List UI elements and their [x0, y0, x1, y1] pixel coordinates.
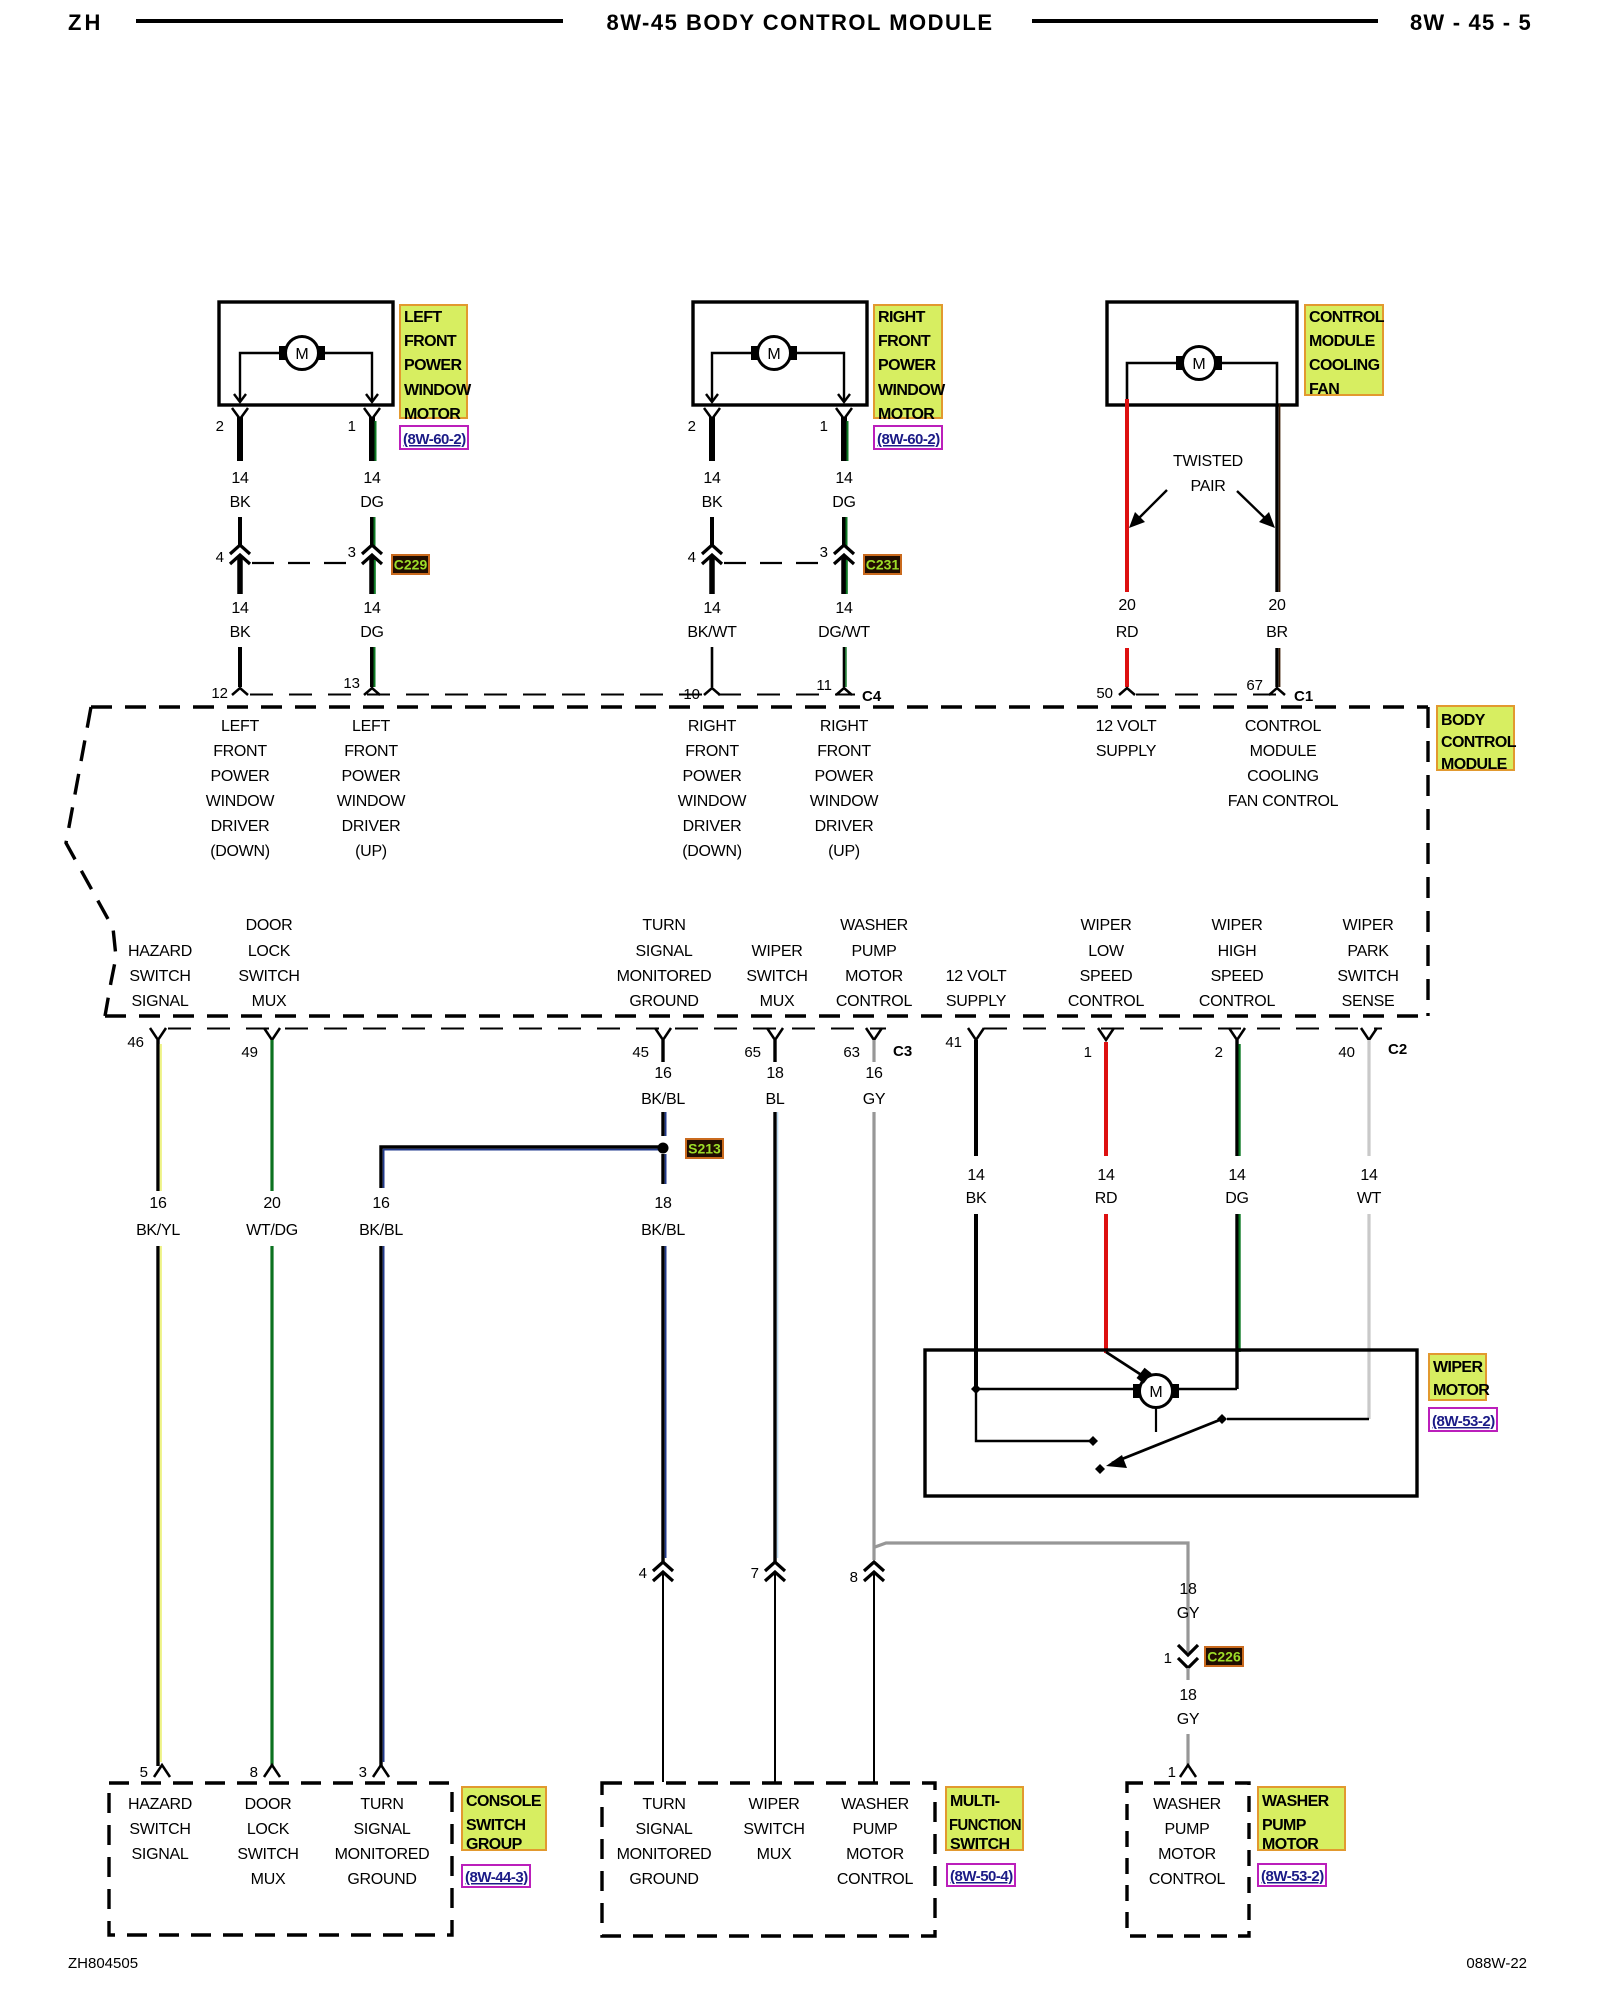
svg-text:MODULE: MODULE	[1250, 743, 1317, 760]
connector MFS pin 4	[653, 1562, 673, 1571]
svg-text:20: 20	[263, 1195, 281, 1212]
svg-text:GROUP: GROUP	[466, 1836, 523, 1853]
link chip 8W-50-4	[947, 1864, 1015, 1886]
svg-text:7: 7	[751, 1565, 759, 1582]
wire BK to motor left terminal	[976, 1388, 1133, 1390]
svg-text:BL: BL	[766, 1091, 785, 1108]
svg-text:POWER: POWER	[211, 768, 270, 785]
svg-text:SIGNAL: SIGNAL	[132, 993, 189, 1010]
svg-text:RD: RD	[1095, 1190, 1118, 1207]
C231 harness dashed link	[724, 562, 832, 564]
svg-text:4: 4	[639, 1565, 647, 1582]
svg-text:14: 14	[967, 1167, 985, 1184]
svg-text:TURN: TURN	[360, 1796, 403, 1813]
svg-text:TURN: TURN	[642, 1796, 685, 1813]
arrow U2 left leg down	[706, 394, 718, 402]
svg-text:PAIR: PAIR	[1191, 478, 1226, 495]
svg-text:MOTOR: MOTOR	[845, 968, 903, 985]
svg-text:18: 18	[654, 1195, 672, 1212]
svg-text:WASHER: WASHER	[1262, 1793, 1330, 1810]
svg-text:GY: GY	[863, 1091, 886, 1108]
console pin 8 Y	[264, 1765, 280, 1777]
svg-text:14: 14	[703, 470, 721, 487]
motor U2: right front power window motor box	[693, 302, 867, 405]
svg-text:SWITCH: SWITCH	[743, 1821, 804, 1838]
svg-text:C3: C3	[893, 1043, 912, 1060]
BCM pin 50 Y	[1119, 688, 1135, 695]
svg-text:WIPER: WIPER	[1433, 1359, 1483, 1376]
motor U3 circle M	[1183, 347, 1216, 380]
svg-text:WIPER: WIPER	[1212, 917, 1263, 934]
svg-text:WIPER: WIPER	[752, 943, 803, 960]
motor U3: control module cooling fan box	[1107, 302, 1297, 405]
svg-text:14: 14	[1097, 1167, 1115, 1184]
svg-text:SIGNAL: SIGNAL	[636, 943, 693, 960]
twisted pair arrow left	[1136, 490, 1167, 521]
svg-text:DG/WT: DG/WT	[818, 624, 870, 641]
svg-text:FRONT: FRONT	[213, 743, 267, 760]
svg-text:WT/DG: WT/DG	[246, 1222, 298, 1239]
svg-text:POWER: POWER	[683, 768, 742, 785]
svg-text:088W-22: 088W-22	[1466, 1955, 1527, 1972]
svg-text:14: 14	[363, 600, 381, 617]
wiper motor M circle	[1140, 1375, 1173, 1408]
connector C229 pin 4	[230, 545, 250, 554]
wiper motor top-left terminal	[1137, 1368, 1152, 1384]
BCM pin 65 Y	[767, 1028, 783, 1040]
svg-text:ZH: ZH	[68, 10, 103, 35]
svg-text:MUX: MUX	[757, 1846, 792, 1863]
link chip 8W-60-2 left	[400, 426, 468, 449]
svg-text:(8W-53-2): (8W-53-2)	[1261, 1868, 1324, 1885]
svg-text:WIPER: WIPER	[1081, 917, 1132, 934]
BCM bottom connector dashed link C2	[984, 1028, 1382, 1030]
svg-text:FAN: FAN	[1309, 381, 1339, 398]
svg-text:BODY: BODY	[1441, 712, 1486, 729]
multi-function switch dashed box	[602, 1783, 935, 1936]
park switch lever tip diamond	[1095, 1464, 1105, 1474]
pin 1 connector Y below U2	[836, 408, 852, 419]
svg-text:BK/BL: BK/BL	[641, 1222, 685, 1239]
BCM pin 63 Y	[866, 1028, 882, 1040]
svg-text:GROUND: GROUND	[629, 993, 698, 1010]
svg-text:SWITCH: SWITCH	[237, 1846, 298, 1863]
svg-text:40: 40	[1338, 1044, 1355, 1061]
svg-text:WINDOW: WINDOW	[878, 382, 946, 399]
svg-text:(DOWN): (DOWN)	[682, 843, 742, 860]
svg-text:45: 45	[632, 1044, 649, 1061]
svg-text:5: 5	[140, 1764, 148, 1781]
svg-text:MONITORED: MONITORED	[335, 1846, 430, 1863]
motor U2 circle M	[758, 337, 791, 370]
svg-text:16: 16	[654, 1065, 672, 1082]
label chip CONTROL MODULE COOLING FAN	[1305, 305, 1383, 395]
label chip LEFT FRONT POWER WINDOW MOTOR	[400, 305, 467, 418]
motor U2 right terminal	[789, 346, 797, 360]
wire U1 right leg	[325, 353, 372, 401]
connector C229 pin 3	[362, 545, 382, 554]
washer pump pin 1 Y	[1180, 1765, 1196, 1777]
svg-text:HAZARD: HAZARD	[128, 1796, 192, 1813]
svg-text:WINDOW: WINDOW	[810, 793, 880, 810]
wire 14 RD pin1	[1104, 1042, 1108, 1156]
svg-text:S213: S213	[688, 1141, 721, 1157]
svg-text:18: 18	[1179, 1687, 1197, 1704]
svg-text:16: 16	[865, 1065, 883, 1082]
C226 label chip	[1205, 1647, 1243, 1666]
svg-text:BK/WT: BK/WT	[687, 624, 737, 641]
WIPER MOTOR chip	[1429, 1354, 1486, 1400]
C229 label chip	[392, 555, 429, 574]
C229 harness dashed link	[252, 562, 360, 564]
svg-text:20: 20	[1268, 597, 1286, 614]
svg-text:MOTOR: MOTOR	[1433, 1382, 1490, 1399]
svg-text:(8W-53-2): (8W-53-2)	[1432, 1413, 1495, 1430]
svg-text:SWITCH: SWITCH	[466, 1817, 526, 1834]
svg-text:MOTOR: MOTOR	[1262, 1836, 1319, 1853]
wire U3 left leg	[1127, 363, 1176, 399]
svg-text:65: 65	[744, 1044, 761, 1061]
svg-text:FRONT: FRONT	[344, 743, 398, 760]
C231 label chip	[864, 555, 901, 574]
svg-text:GROUND: GROUND	[629, 1871, 698, 1888]
svg-text:WINDOW: WINDOW	[678, 793, 748, 810]
BCM pin 46 Y	[150, 1028, 166, 1040]
BCM top connector dashed link left	[250, 694, 855, 696]
svg-text:MONITORED: MONITORED	[617, 1846, 712, 1863]
splice S213 horizontal wire	[381, 1147, 660, 1188]
arrow U1 right leg down	[366, 394, 378, 402]
CONSOLE SWITCH GROUP chip	[462, 1787, 546, 1850]
BCM pin 11 Y	[836, 688, 852, 695]
link chip 8W-60-2 right	[874, 426, 942, 449]
wire 20 RD from U3	[1125, 404, 1129, 592]
svg-text:DG: DG	[1225, 1190, 1248, 1207]
svg-text:M: M	[295, 346, 308, 363]
BCM pin 2 Y	[1229, 1028, 1245, 1040]
svg-text:M: M	[767, 346, 780, 363]
svg-text:DOOR: DOOR	[246, 917, 293, 934]
svg-text:DRIVER: DRIVER	[683, 818, 742, 835]
BCM pin 40 Y	[1361, 1028, 1377, 1040]
svg-text:CONTROL: CONTROL	[1199, 993, 1276, 1010]
svg-text:BK/YL: BK/YL	[136, 1222, 180, 1239]
svg-text:1: 1	[1084, 1044, 1092, 1061]
link chip 8W-44-3	[462, 1865, 530, 1887]
svg-text:SIGNAL: SIGNAL	[132, 1846, 189, 1863]
svg-text:HIGH: HIGH	[1218, 943, 1257, 960]
svg-text:PUMP: PUMP	[1164, 1821, 1209, 1838]
svg-text:PUMP: PUMP	[852, 1821, 897, 1838]
park contact diamond left	[1088, 1436, 1098, 1446]
svg-text:C231: C231	[866, 557, 900, 573]
svg-text:BR: BR	[1266, 624, 1288, 641]
motor U3 right terminal	[1214, 356, 1222, 370]
svg-text:C226: C226	[1207, 1649, 1241, 1665]
svg-text:WASHER: WASHER	[1153, 1796, 1221, 1813]
svg-text:67: 67	[1246, 677, 1263, 694]
svg-text:DRIVER: DRIVER	[342, 818, 401, 835]
svg-text:BK: BK	[230, 494, 251, 511]
BODY CONTROL MODULE chip	[1437, 706, 1514, 770]
pin 2 connector Y below U1	[232, 408, 248, 419]
wire 16 GY pin63	[872, 1040, 875, 1062]
svg-text:POWER: POWER	[404, 357, 462, 374]
svg-text:14: 14	[231, 600, 249, 617]
svg-text:MOTOR: MOTOR	[846, 1846, 904, 1863]
wire 20 BR from U3	[1275, 404, 1278, 592]
BCM pin 13 Y	[364, 688, 380, 695]
svg-text:16: 16	[149, 1195, 167, 1212]
wire WT to park switch pivot	[1227, 1418, 1369, 1420]
wiper motor box	[925, 1350, 1417, 1496]
wire 18 BL pin65	[773, 1040, 776, 1062]
svg-text:LOCK: LOCK	[248, 943, 291, 960]
svg-text:8W-45 BODY CONTROL MODULE: 8W-45 BODY CONTROL MODULE	[606, 10, 993, 35]
svg-text:CONTROL: CONTROL	[1441, 734, 1517, 751]
motor U1 right terminal	[317, 346, 325, 360]
svg-text:CONTROL: CONTROL	[1068, 993, 1145, 1010]
svg-text:8: 8	[850, 1569, 858, 1586]
svg-text:COOLING: COOLING	[1309, 357, 1380, 374]
BCM dashed box bottom edge	[105, 1014, 1428, 1017]
wire 16 BK/YL pin46 upper	[156, 1040, 159, 1191]
svg-text:LOCK: LOCK	[247, 1821, 290, 1838]
wire 14 DG from U2 pin1	[841, 417, 847, 461]
motor U1: left front power window motor box	[219, 302, 393, 405]
svg-text:41: 41	[945, 1034, 962, 1051]
svg-text:2: 2	[688, 418, 696, 435]
svg-text:4: 4	[688, 549, 696, 566]
svg-text:C229: C229	[394, 557, 428, 573]
svg-text:BK: BK	[230, 624, 251, 641]
wire 14 BK from U1 pin2	[237, 417, 243, 461]
svg-text:LEFT: LEFT	[352, 718, 390, 735]
svg-text:14: 14	[363, 470, 381, 487]
svg-text:MONITORED: MONITORED	[617, 968, 712, 985]
wire 16 BK/YL pin46 lower	[156, 1246, 159, 1766]
svg-text:1: 1	[820, 418, 828, 435]
wire U2 right leg	[797, 353, 844, 401]
svg-text:WINDOW: WINDOW	[404, 382, 472, 399]
svg-text:M: M	[1149, 1384, 1162, 1401]
svg-text:WASHER: WASHER	[840, 917, 908, 934]
wire U3 right leg	[1222, 363, 1277, 405]
svg-text:14: 14	[231, 470, 249, 487]
wire BK junction node	[971, 1384, 981, 1394]
svg-text:CONTROL: CONTROL	[836, 993, 913, 1010]
header rule left	[136, 19, 563, 23]
splice S213 node	[658, 1143, 669, 1154]
header rule right	[1032, 19, 1378, 23]
svg-text:FRONT: FRONT	[878, 333, 931, 350]
svg-text:GROUND: GROUND	[347, 1871, 416, 1888]
svg-text:DRIVER: DRIVER	[815, 818, 874, 835]
console pin 3 Y	[373, 1765, 389, 1777]
svg-text:20: 20	[1118, 597, 1136, 614]
svg-text:RD: RD	[1116, 624, 1139, 641]
svg-text:(UP): (UP)	[355, 843, 387, 860]
svg-text:WT: WT	[1357, 1190, 1382, 1207]
svg-text:14: 14	[1360, 1167, 1378, 1184]
svg-text:SWITCH: SWITCH	[129, 968, 190, 985]
svg-text:MODULE: MODULE	[1441, 756, 1508, 773]
wire U1 left leg	[240, 353, 279, 401]
wire 20 WT/DG pin49 lower	[270, 1246, 273, 1766]
svg-text:WINDOW: WINDOW	[206, 793, 276, 810]
wire DG to motor right terminal	[1179, 1388, 1237, 1390]
svg-text:RIGHT: RIGHT	[688, 718, 737, 735]
svg-text:2: 2	[1215, 1044, 1223, 1061]
wiper motor right terminal	[1171, 1384, 1179, 1398]
svg-text:BK: BK	[966, 1190, 987, 1207]
motor U3 left terminal	[1176, 356, 1184, 370]
svg-text:DG: DG	[360, 494, 383, 511]
MULTI-FUNCTION SWITCH chip	[946, 1787, 1023, 1850]
svg-text:POWER: POWER	[342, 768, 401, 785]
svg-text:SWITCH: SWITCH	[238, 968, 299, 985]
svg-text:CONTROL: CONTROL	[1245, 718, 1322, 735]
svg-text:WIPER: WIPER	[749, 1796, 800, 1813]
wire 14 BK pin41	[974, 1040, 978, 1156]
svg-text:C4: C4	[862, 688, 882, 705]
svg-text:GY: GY	[1177, 1711, 1200, 1728]
svg-text:16: 16	[372, 1195, 390, 1212]
connector MFS pin 8	[864, 1562, 884, 1571]
svg-text:1: 1	[1168, 1764, 1176, 1781]
svg-text:1: 1	[1164, 1650, 1172, 1667]
BCM pin 49 Y	[264, 1028, 280, 1040]
svg-text:8: 8	[250, 1764, 258, 1781]
svg-text:MOTOR: MOTOR	[878, 406, 935, 423]
BCM pin 1 Y	[1098, 1028, 1114, 1040]
svg-text:DOOR: DOOR	[245, 1796, 292, 1813]
svg-text:HAZARD: HAZARD	[128, 943, 192, 960]
svg-text:FRONT: FRONT	[685, 743, 739, 760]
BCM pin 12 Y	[232, 688, 248, 695]
svg-text:DG: DG	[832, 494, 855, 511]
svg-text:MOTOR: MOTOR	[1158, 1846, 1216, 1863]
park switch lever	[1112, 1419, 1222, 1463]
svg-text:LOW: LOW	[1088, 943, 1125, 960]
svg-text:SPEED: SPEED	[1080, 968, 1133, 985]
label chip RIGHT FRONT POWER WINDOW MOTOR	[874, 305, 942, 418]
svg-text:POWER: POWER	[815, 768, 874, 785]
svg-text:(8W-44-3): (8W-44-3)	[465, 1869, 528, 1886]
svg-text:SIGNAL: SIGNAL	[354, 1821, 411, 1838]
BCM dashed box jagged left edge	[66, 707, 116, 1016]
svg-text:50: 50	[1096, 685, 1113, 702]
svg-text:12 VOLT: 12 VOLT	[1096, 718, 1157, 735]
svg-text:63: 63	[843, 1044, 860, 1061]
svg-text:SUPPLY: SUPPLY	[946, 993, 1007, 1010]
link chip 8W-53-2 wiper	[1429, 1408, 1497, 1431]
wire 18 GY branch to washer pump	[875, 1543, 1188, 1628]
BCM pin 45 Y	[655, 1028, 671, 1040]
BCM bottom connector dashed link C3	[168, 1028, 886, 1030]
svg-text:MULTI-: MULTI-	[950, 1793, 1000, 1810]
connector C231 pin 4	[702, 545, 722, 554]
svg-text:(UP): (UP)	[828, 843, 860, 860]
svg-text:8W - 45 - 5: 8W - 45 - 5	[1410, 10, 1532, 35]
svg-text:FRONT: FRONT	[817, 743, 871, 760]
svg-text:GY: GY	[1177, 1605, 1200, 1622]
arrow U1 left leg down	[234, 394, 246, 402]
connector MFS pin 7	[765, 1562, 785, 1571]
svg-text:POWER: POWER	[878, 357, 936, 374]
wire 14 WT pin40	[1367, 1040, 1370, 1156]
svg-text:SWITCH: SWITCH	[1337, 968, 1398, 985]
BCM dashed box top edge	[91, 705, 1428, 708]
wire 14 DG from U1 pin1	[369, 417, 375, 461]
wire U3 left leg red exit	[1125, 399, 1129, 405]
svg-text:BK/BL: BK/BL	[359, 1222, 403, 1239]
svg-text:DG: DG	[360, 624, 383, 641]
park switch lever arrowhead	[1106, 1455, 1127, 1468]
connector C231 pin 3	[834, 545, 854, 554]
svg-text:(8W-60-2): (8W-60-2)	[403, 431, 466, 448]
svg-text:SPEED: SPEED	[1211, 968, 1264, 985]
svg-text:WIPER: WIPER	[1343, 917, 1394, 934]
svg-text:3: 3	[820, 544, 828, 561]
svg-text:SWITCH: SWITCH	[746, 968, 807, 985]
svg-text:49: 49	[241, 1044, 258, 1061]
BCM pin 10 Y	[704, 688, 720, 695]
svg-text:MUX: MUX	[760, 993, 795, 1010]
pin 2 connector Y below U2	[704, 408, 720, 419]
svg-text:18: 18	[766, 1065, 784, 1082]
svg-text:FRONT: FRONT	[404, 333, 457, 350]
svg-text:3: 3	[359, 1764, 367, 1781]
svg-text:1: 1	[348, 418, 356, 435]
svg-text:SENSE: SENSE	[1342, 993, 1395, 1010]
svg-text:12: 12	[211, 685, 228, 702]
pin 1 connector Y below U1	[364, 408, 380, 419]
BCM top connector dashed link right	[1136, 694, 1288, 696]
svg-text:(8W-60-2): (8W-60-2)	[877, 431, 940, 448]
BCM dashed box right edge	[1426, 707, 1429, 1016]
console pin 5 Y	[154, 1765, 170, 1777]
svg-text:CONTROL: CONTROL	[837, 1871, 914, 1888]
arrow U2 right leg down	[838, 394, 850, 402]
svg-text:CONTROL: CONTROL	[1149, 1871, 1226, 1888]
svg-text:CONSOLE: CONSOLE	[466, 1793, 542, 1810]
svg-text:14: 14	[835, 600, 853, 617]
wire BK down to park contact	[976, 1389, 1093, 1441]
svg-text:ZH804505: ZH804505	[68, 1955, 138, 1972]
motor U1 left terminal	[279, 346, 287, 360]
svg-text:14: 14	[1228, 1167, 1246, 1184]
svg-text:FUNCTION: FUNCTION	[949, 1817, 1021, 1834]
park switch pivot diamond	[1217, 1414, 1227, 1424]
svg-text:PARK: PARK	[1347, 943, 1389, 960]
svg-text:14: 14	[835, 470, 853, 487]
svg-text:PUMP: PUMP	[1262, 1817, 1307, 1834]
svg-text:WINDOW: WINDOW	[337, 793, 407, 810]
svg-text:C2: C2	[1388, 1041, 1407, 1058]
link chip 8W-53-2 washer	[1258, 1864, 1326, 1886]
BCM pin 67 Y	[1269, 688, 1285, 695]
svg-text:LEFT: LEFT	[404, 309, 442, 326]
svg-text:TWISTED: TWISTED	[1173, 453, 1243, 470]
connector C226	[1186, 1628, 1189, 1652]
svg-text:BK: BK	[702, 494, 723, 511]
svg-text:MUX: MUX	[252, 993, 287, 1010]
svg-text:12 VOLT: 12 VOLT	[946, 968, 1007, 985]
wire 20 WT/DG pin49 upper	[270, 1040, 273, 1191]
wire 14 DG pin2	[1235, 1040, 1238, 1156]
svg-text:COOLING: COOLING	[1247, 768, 1319, 785]
